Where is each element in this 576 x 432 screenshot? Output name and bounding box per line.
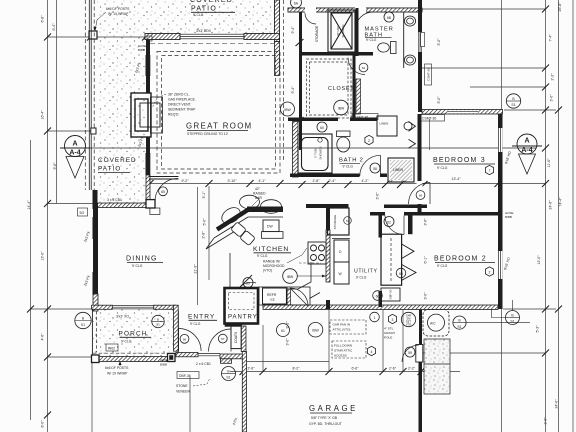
svg-text:A-4: A-4 — [521, 147, 532, 154]
tag BW hall — [281, 102, 295, 116]
svg-text:4'-6": 4'-6" — [41, 333, 45, 341]
note STONE VENEER — [176, 378, 210, 394]
dryer D — [334, 240, 349, 262]
room label DINING — [126, 256, 163, 269]
left dim line outer — [30, 140, 32, 420]
hall dim x299 — [299, 13, 301, 150]
hex tag 2 bedroom2 — [485, 267, 493, 276]
svg-text:LINEN: LINEN — [380, 122, 389, 126]
svg-text:7: 7 — [489, 169, 491, 173]
svg-text:DBF-50: DBF-50 — [389, 289, 393, 299]
door arc dining patio — [155, 179, 178, 202]
window great room north — [180, 34, 244, 39]
wall hatch patio east — [275, 0, 280, 42]
dashed eave line patio right — [283, 0, 285, 160]
room label MASTER BATH — [365, 27, 394, 42]
svg-text:6'-1": 6'-1" — [424, 256, 428, 264]
svg-text:PANTRY: PANTRY — [228, 315, 258, 321]
front door threshold — [198, 353, 220, 355]
svg-text:CSMT-30: CSMT-30 — [422, 117, 436, 121]
vanity counter master — [403, 12, 405, 68]
door arc bedroom2 — [385, 216, 404, 235]
svg-text:BIBB: BIBB — [138, 48, 145, 52]
svg-text:4" STL: 4" STL — [384, 327, 394, 331]
svg-text:59: 59 — [408, 351, 412, 355]
svg-text:74'-4": 74'-4" — [559, 197, 563, 207]
wall dining west bottom hatch — [93, 294, 98, 311]
svg-text:CSMT-36: CSMT-36 — [354, 115, 368, 119]
wall great room north right outline — [244, 34, 280, 40]
bed2 closet rod dashed — [390, 238, 392, 281]
svg-text:B: B — [157, 318, 159, 322]
door tag 59 pantry — [243, 278, 253, 288]
closet shelving dashed inner — [310, 62, 349, 115]
garage dim line y371 — [230, 371, 460, 373]
right extension line x501 lower — [501, 309, 503, 432]
svg-text:GREAT ROOM: GREAT ROOM — [186, 122, 253, 131]
garage ext x383 — [382, 310, 384, 372]
room label GREAT ROOM — [186, 122, 253, 137]
svg-text:9' CLG: 9' CLG — [437, 166, 448, 170]
wall utility east lower — [379, 291, 383, 307]
svg-text:W/ 1X WRAP: W/ 1X WRAP — [107, 372, 128, 376]
svg-text:66: 66 — [419, 194, 423, 198]
note 4in STL CRASH POLE — [384, 327, 395, 340]
door tag 6A — [291, 0, 302, 8]
label 9/2 boxed — [78, 208, 88, 216]
sink master 2 — [404, 55, 415, 65]
patio west dashed edge a — [84, 0, 86, 190]
door tag 61 garage — [277, 324, 290, 337]
svg-text:IBW: IBW — [287, 275, 294, 279]
svg-text:BEDROOM 3: BEDROOM 3 — [433, 157, 486, 164]
toilet master — [378, 42, 396, 54]
svg-text:3 x 6 CB1: 3 x 6 CB1 — [107, 198, 122, 202]
sink master 1 — [404, 16, 415, 26]
bed3 closet chevron b — [409, 139, 416, 148]
door arc closet master — [348, 58, 365, 75]
window bedroom3 east — [499, 128, 503, 152]
svg-text:2'-8": 2'-8" — [202, 231, 206, 239]
svg-text:A-4: A-4 — [69, 150, 80, 157]
svg-text:3'-6": 3'-6" — [424, 218, 428, 226]
svg-text:3'-0": 3'-0" — [286, 338, 290, 346]
svg-text:9' CLG: 9' CLG — [356, 276, 367, 280]
wall hall north utility — [306, 204, 349, 208]
range with burners — [308, 242, 326, 264]
wall utility east — [379, 216, 383, 238]
bed3 closet chevron a — [404, 121, 415, 131]
patio west solid edge lines — [89, 0, 91, 190]
door tag 57 — [218, 334, 227, 343]
door gap bedroom2 — [385, 211, 404, 217]
svg-text:16'-4": 16'-4" — [41, 110, 45, 120]
raised bar diagonal counter — [217, 209, 250, 230]
door arc master bath north — [356, 12, 374, 30]
svg-text:5'-3": 5'-3" — [536, 325, 540, 333]
wall patio east band outline — [275, 0, 280, 42]
wall garage west upper hatch — [241, 326, 246, 352]
svg-text:A/C: A/C — [430, 322, 436, 326]
bed2 closet bifold chevron b — [402, 265, 416, 281]
section line A-A — [60, 147, 536, 149]
bed3 closet line — [428, 119, 430, 150]
wall great room west bottom hatch — [146, 175, 150, 204]
svg-text:58: 58 — [373, 167, 377, 171]
wall house south garage north hatch — [263, 305, 498, 310]
door tag 59 garage — [405, 347, 415, 357]
svg-text:BEDROOM 2: BEDROOM 2 — [434, 256, 487, 263]
label CSMT-30 boxed — [421, 115, 445, 122]
svg-text:S1: S1 — [511, 103, 515, 107]
door gap master top hall — [355, 7, 366, 13]
right extension line x501 upper — [501, 0, 503, 110]
wall garage east lower — [419, 362, 423, 432]
wall dining west mid — [93, 239, 98, 272]
wall kitchen east hatch lower — [326, 230, 330, 282]
utility counter line — [332, 238, 350, 240]
wall hatch master top — [288, 8, 422, 12]
svg-text:36" ZERO CL.: 36" ZERO CL. — [168, 93, 190, 97]
dishwasher DW — [263, 220, 279, 232]
kitchen counter strip below DW — [262, 232, 284, 239]
svg-text:9' CLG: 9' CLG — [437, 264, 448, 268]
svg-text:64: 64 — [362, 66, 366, 70]
tub bath2 — [298, 134, 332, 173]
note 6x6 DF POSTS top — [94, 7, 131, 31]
svg-text:LINEN: LINEN — [393, 168, 404, 172]
label DBF-36 boxed — [177, 372, 199, 379]
right extension y110 — [504, 109, 556, 111]
svg-text:56: 56 — [183, 337, 187, 341]
svg-text:S1: S1 — [81, 323, 85, 327]
door gap bedroom3 — [417, 181, 423, 204]
room label BEDROOM 3 — [433, 157, 495, 170]
svg-text:A: A — [524, 138, 529, 145]
svg-text:STORAGE: STORAGE — [333, 215, 337, 230]
svg-text:COVERED: COVERED — [98, 157, 137, 164]
wall bedroom3 north hatch — [422, 110, 503, 115]
wall coats north — [225, 324, 242, 327]
wall master top band outline — [288, 8, 422, 12]
svg-text:5'-0": 5'-0" — [437, 38, 441, 46]
wall master east — [418, 0, 422, 112]
note HOSE BIBB right — [505, 211, 514, 219]
door leaf kitchen utility — [310, 293, 321, 299]
window bedroom3 north — [448, 110, 478, 113]
room label COVERED PATIO top — [190, 0, 235, 17]
svg-text:11'-6": 11'-6" — [547, 158, 551, 167]
tub label rotated — [314, 146, 323, 159]
wall great room east upper — [275, 42, 280, 76]
tag storage closet — [344, 217, 352, 225]
post patio northwest — [89, 31, 97, 39]
svg-text:(VTO): (VTO) — [263, 269, 272, 273]
svg-text:12'-0": 12'-0" — [537, 255, 541, 265]
tag B S1 right top — [506, 94, 520, 108]
kitchen sink bowls — [231, 222, 256, 246]
wall pantry box — [225, 288, 259, 324]
wall under storage shower — [299, 52, 373, 56]
svg-text:3'-1": 3'-1" — [202, 191, 206, 199]
concrete pad speckled — [424, 339, 450, 394]
svg-text:6A: 6A — [294, 1, 299, 5]
patio west dashed edge b — [93, 0, 95, 190]
svg-text:8'-0": 8'-0" — [41, 420, 45, 428]
svg-text:ENTRY: ENTRY — [188, 314, 215, 321]
wall hatch great room north left — [145, 34, 180, 40]
wall garage east upper — [419, 309, 422, 345]
svg-text:4'-1": 4'-1" — [259, 179, 267, 183]
svg-text:GAR FAN IN: GAR FAN IN — [333, 323, 351, 327]
post patio southeast — [146, 200, 155, 208]
svg-text:2'-4": 2'-4" — [329, 179, 337, 183]
window dining west upper — [93, 217, 99, 239]
svg-text:2'-2": 2'-2" — [551, 73, 555, 81]
svg-text:36"x60": 36"x60" — [336, 26, 340, 36]
tag BW kitchen — [283, 269, 326, 284]
svg-text:CSMT-36: CSMT-36 — [427, 68, 431, 81]
section marker A-4 left — [60, 136, 90, 179]
right extension y309 — [503, 308, 556, 310]
svg-text:BATH 2: BATH 2 — [339, 158, 364, 164]
svg-text:STONE: STONE — [176, 384, 188, 388]
kitchen sw corner counter — [287, 262, 312, 289]
svg-text:GAS FIREPLACE.: GAS FIREPLACE. — [168, 98, 196, 102]
tag B S1 entry — [222, 367, 236, 381]
wall entry front east hatch — [220, 354, 246, 359]
svg-text:3'-0": 3'-0" — [550, 94, 554, 102]
post porch southwest — [92, 355, 100, 363]
stipple floor covered patio left strip — [98, 34, 146, 204]
svg-text:6'-4": 6'-4" — [52, 23, 56, 31]
svg-text:2 x 6 CB1: 2 x 6 CB1 — [196, 362, 211, 366]
door arc utility — [290, 288, 308, 306]
svg-text:3'-0": 3'-0" — [424, 292, 428, 300]
door garage side leaf — [416, 345, 423, 363]
refrigerator — [263, 288, 288, 304]
svg-text:IBW: IBW — [284, 108, 291, 112]
extension y357 left — [48, 356, 96, 358]
svg-text:STORAGE: STORAGE — [315, 25, 319, 42]
wall dining south hatch left — [92, 305, 113, 309]
bed2 closet bifold chevron a — [402, 244, 414, 259]
hex tag 7 bedroom3 — [485, 165, 493, 174]
wall bedroom3 west — [418, 114, 422, 215]
svg-text:14'-4": 14'-4" — [27, 200, 31, 210]
wall hall south bedrooms north — [370, 212, 498, 216]
wall bedroom2 east — [498, 110, 503, 309]
label W02 boxed porch — [106, 344, 118, 351]
svg-text:9' CLG: 9' CLG — [132, 264, 143, 268]
door gap master top storage — [305, 7, 316, 13]
svg-text:4'-2": 4'-2" — [362, 179, 370, 183]
AC unit pad — [423, 310, 449, 337]
room label UTILITY — [354, 269, 378, 280]
kitchen upper cab dashed — [299, 262, 321, 264]
svg-text:PATIO: PATIO — [98, 166, 121, 173]
toilet bath2 — [337, 131, 351, 152]
wall closet east — [353, 52, 356, 121]
door pantry angled — [240, 275, 256, 287]
svg-text:1: 1 — [374, 316, 376, 320]
garage ext x263 — [262, 325, 264, 372]
svg-text:BAR: BAR — [255, 196, 263, 200]
closet east shelf hatch — [356, 79, 361, 114]
raised bar horizontal counter — [247, 207, 283, 213]
svg-text:57: 57 — [221, 337, 225, 341]
svg-text:A: A — [72, 141, 77, 148]
stipple floor porch — [93, 309, 176, 357]
extension y131 — [48, 130, 93, 132]
svg-text:9' CLG: 9' CLG — [366, 38, 377, 42]
svg-text:KITCHEN: KITCHEN — [253, 246, 289, 253]
wall great room west mid — [146, 76, 150, 93]
svg-text:CLOSET: CLOSET — [328, 86, 354, 92]
svg-text:DW: DW — [267, 225, 273, 229]
coats closet box — [231, 326, 241, 349]
label CSMT-36 boxed rotated — [425, 64, 432, 85]
wall linen hall closet — [388, 158, 414, 182]
dashed sill line under great room north window — [150, 43, 280, 45]
room label PORCH — [119, 331, 152, 344]
wall hatch great room north right — [244, 34, 280, 40]
svg-text:DBF-36: DBF-36 — [179, 374, 191, 378]
wall shower east — [356, 8, 359, 56]
svg-text:SHOWER: SHOWER — [319, 146, 323, 159]
svg-text:4: 4 — [371, 350, 373, 354]
svg-text:2'-2": 2'-2" — [408, 367, 416, 371]
wall bedroom3 south closets — [384, 205, 427, 209]
room label COVERED PATIO left — [98, 157, 137, 173]
svg-text:DIRECT-VENT.: DIRECT-VENT. — [168, 103, 191, 107]
svg-text:BIBB: BIBB — [160, 363, 167, 367]
tag BW garage — [308, 322, 323, 337]
fireplace F1 — [131, 93, 163, 137]
section marker A-4 right — [512, 134, 542, 174]
bed2 lower tag — [373, 291, 383, 301]
right extension y87 — [470, 86, 546, 88]
door tag 56 — [180, 334, 189, 343]
door tag 65 — [159, 187, 168, 196]
garage ext x190 — [189, 377, 191, 432]
svg-text:BIBB: BIBB — [505, 215, 512, 219]
tag BW closet — [334, 100, 349, 115]
svg-text:2: 2 — [368, 139, 370, 143]
svg-text:9'-2": 9'-2" — [182, 179, 190, 183]
bed2 closet box — [381, 234, 402, 285]
svg-text:9/2: 9/2 — [80, 211, 85, 215]
door arc bedroom3 — [409, 183, 431, 205]
porch south dashed line — [93, 352, 176, 354]
svg-text:13'-4": 13'-4" — [452, 177, 462, 181]
note GAR FAN boxed dashed — [330, 320, 366, 334]
svg-text:REFR: REFR — [267, 293, 277, 297]
svg-text:REQ'D.: REQ'D. — [168, 113, 179, 117]
svg-text:5' TUB/: 5' TUB/ — [314, 148, 318, 158]
header great room south — [149, 177, 179, 180]
entry porch divider line — [178, 311, 180, 352]
svg-text:5'-0": 5'-0" — [437, 96, 441, 104]
svg-text:9'-2": 9'-2" — [286, 321, 290, 329]
svg-text:GARAGE: GARAGE — [309, 404, 358, 413]
wall great room west lower — [146, 137, 150, 153]
right dim line 2 — [558, 0, 560, 432]
post patio southwest — [93, 190, 98, 209]
label SHOWER rotated — [336, 24, 345, 37]
svg-text:SHOWER: SHOWER — [341, 24, 345, 37]
note 42 RAISED BAR — [252, 187, 266, 206]
svg-text:6'-8": 6'-8" — [41, 15, 45, 23]
svg-text:9' CLG: 9' CLG — [190, 322, 201, 326]
svg-text:FULL DOWN: FULL DOWN — [334, 344, 352, 348]
svg-text:W02: W02 — [108, 346, 115, 350]
room label BEDROOM 2 — [434, 256, 495, 269]
pier below patio post — [150, 208, 160, 215]
svg-text:CRASH: CRASH — [384, 331, 395, 335]
svg-text:DINING: DINING — [126, 256, 158, 263]
svg-text:9' CLG: 9' CLG — [257, 254, 268, 258]
door tag 58 bath2 — [370, 163, 380, 173]
svg-text:S1: S1 — [457, 325, 461, 329]
svg-text:60: 60 — [320, 126, 324, 130]
svg-text:5/8" TYPE 'X' GB: 5/8" TYPE 'X' GB — [311, 416, 338, 420]
svg-text:VENEER: VENEER — [176, 390, 190, 394]
washer W — [334, 262, 349, 284]
svg-text:6x6 DF POSTS: 6x6 DF POSTS — [106, 7, 130, 11]
svg-text:6x6 DF POSTS: 6x6 DF POSTS — [105, 366, 129, 370]
door tag 64 master — [359, 63, 368, 72]
svg-text:HOSE: HOSE — [160, 358, 169, 362]
note HOSE BIBB patio — [138, 36, 152, 52]
kitchen sw halfwall hatch — [286, 289, 290, 305]
svg-text:3'x3' BOX: 3'x3' BOX — [196, 29, 212, 33]
kitchen dim line y183 — [150, 183, 546, 185]
window label box master wall — [421, 33, 425, 47]
wall bath2 west hatch — [293, 122, 299, 178]
tag B S1 porch west — [75, 312, 91, 328]
svg-text:9' CLG: 9' CLG — [193, 13, 204, 17]
door tag 60 hall — [317, 122, 327, 132]
hex tag 3 garage — [388, 314, 396, 323]
svg-text:61: 61 — [281, 329, 285, 333]
right leader y353 — [423, 352, 546, 354]
bed2 closet tag — [396, 268, 406, 278]
svg-text:62: 62 — [387, 220, 391, 224]
svg-text:9'-6": 9'-6" — [53, 162, 57, 170]
svg-text:STAIR ATTIC: STAIR ATTIC — [334, 349, 353, 353]
svg-text:S1: S1 — [156, 323, 160, 327]
wall garage west lower hatch — [242, 352, 246, 432]
bar stool 2 — [261, 200, 282, 214]
svg-text:3'-10": 3'-10" — [228, 179, 238, 183]
label CSMT-36 boxed hall — [352, 114, 378, 120]
svg-text:26'-8": 26'-8" — [558, 2, 562, 12]
svg-text:MICROHOOD: MICROHOOD — [263, 264, 285, 268]
left dim line inner — [47, 0, 49, 432]
room label BATH 2 — [339, 158, 364, 169]
svg-text:RANGE W/: RANGE W/ — [263, 260, 280, 264]
svg-text:PORCH: PORCH — [119, 331, 148, 338]
svg-text:7'-4": 7'-4" — [549, 34, 553, 42]
porch ext x92 — [91, 360, 93, 432]
door arc garage side — [402, 345, 419, 362]
svg-text:IBW: IBW — [312, 329, 319, 333]
svg-text:24'-0": 24'-0" — [555, 399, 559, 409]
svg-text:65: 65 — [161, 190, 165, 194]
svg-text:3: 3 — [392, 318, 394, 322]
shower master — [328, 10, 355, 52]
